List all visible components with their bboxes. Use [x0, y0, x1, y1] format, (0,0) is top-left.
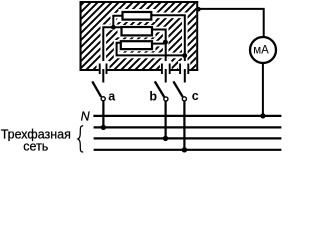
svg-text:c: c — [192, 89, 199, 103]
junction dot net B — [163, 40, 168, 45]
junction dot net C / bus — [182, 53, 187, 58]
winding W2 — [122, 27, 153, 35]
wire halo bottom bus — [117, 43, 185, 56]
neutral line N — [93, 115, 281, 117]
winding W1 — [123, 12, 152, 20]
phase line L2 — [94, 137, 282, 139]
dot on tank wall to meter — [196, 7, 201, 12]
wire W3-left bottom bus to bushing c column — [117, 43, 185, 56]
switch a contact circle — [101, 97, 105, 101]
white notch bushing a — [97, 61, 110, 69]
tank bottom wall segments — [80, 69, 199, 71]
switch a lever — [92, 81, 101, 96]
junction dot c/L3 — [182, 147, 187, 152]
junction dot meter/N — [260, 113, 265, 118]
tank border right — [196, 1, 198, 71]
phase line L1 — [94, 126, 282, 128]
wire halo net A — [103, 16, 121, 66]
wire halo net C — [153, 15, 185, 66]
bushing b bars — [162, 64, 170, 75]
svg-text:сеть: сеть — [23, 140, 48, 154]
switch b contact circle — [164, 97, 168, 101]
wire halo net B — [153, 30, 166, 67]
winding W3 — [121, 41, 152, 49]
white notch bushing b — [160, 61, 172, 69]
svg-text:N: N — [81, 110, 91, 124]
wire switch a to line L1 — [102, 101, 104, 127]
junction dot b/L2 — [163, 136, 168, 141]
wire switch c to line L3 — [183, 101, 185, 149]
switch c lever — [173, 81, 182, 96]
white clearance winding W3 — [118, 39, 156, 51]
wire meter to N line — [262, 64, 264, 116]
brace — [78, 126, 83, 152]
switch c contact circle — [182, 97, 186, 101]
white notch bushing c — [178, 61, 190, 69]
tank border top — [80, 1, 199, 3]
phase line L3 — [94, 149, 282, 151]
svg-text:b: b — [149, 89, 157, 103]
wire switch b to line L2 — [165, 102, 167, 139]
switch b lever — [155, 81, 164, 97]
milliammeter PA — [250, 37, 276, 63]
white clearance winding W2 — [118, 25, 156, 37]
wire W1-right down to bushing c — [152, 15, 185, 82]
bushing a bars — [100, 64, 107, 75]
svg-text:a: a — [108, 90, 116, 104]
wire W1-left to W2-left junction — [103, 16, 122, 83]
junction dot a/L1 — [101, 125, 106, 130]
tank enclosure hatched fill — [82, 3, 197, 69]
junction dot net A — [111, 25, 116, 30]
wire tank wall to meter — [198, 9, 263, 37]
tank border left — [80, 1, 82, 71]
svg-text:мА: мА — [253, 45, 269, 57]
wire W2-right and W3-right to bushing b — [152, 30, 166, 83]
white clearance winding W1 — [119, 9, 156, 22]
bushing c bars — [180, 64, 188, 75]
